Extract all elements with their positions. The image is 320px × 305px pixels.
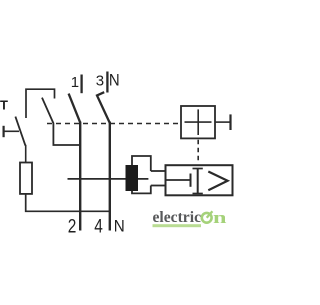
coil output wire	[215, 121, 231, 123]
pole 1 wire	[79, 122, 81, 231]
svg-text:1: 1	[71, 74, 79, 91]
svg-text:4: 4	[94, 216, 103, 237]
symbol greater-than inside amp box	[208, 172, 227, 191]
svg-text:n: n	[213, 208, 227, 227]
dashed link coil to amplifier	[197, 140, 199, 164]
logo o (green switch ring)	[202, 213, 212, 223]
test switch blade	[42, 98, 80, 145]
symbol I (current) inside amp box	[193, 169, 203, 194]
test pushbutton blade	[15, 117, 25, 146]
CT primary sense line	[68, 178, 149, 180]
mechanical linkage dashed line	[47, 123, 181, 125]
terminal stub 1	[80, 75, 82, 94]
coil output terminal bar	[229, 114, 231, 130]
logo green tagline bar	[153, 224, 202, 227]
pole 1 contact blade	[69, 94, 81, 123]
svg-text:electric: electric	[153, 209, 202, 226]
CT core (toroid)	[126, 165, 139, 191]
svg-text:3: 3	[96, 72, 104, 89]
amplifier / trip unit box U2	[166, 165, 233, 195]
svg-text:N: N	[109, 71, 120, 90]
wire resistor to neutral bus	[26, 194, 111, 211]
test pushbutton actuator	[4, 126, 19, 137]
logo electricon	[153, 208, 228, 227]
svg-text:T: T	[0, 98, 8, 113]
wire blade to resistor	[25, 145, 27, 163]
symbol dash-bar inside amp box	[167, 174, 191, 187]
svg-text:2: 2	[68, 216, 77, 237]
pole 2 wire	[109, 122, 111, 231]
CT secondary winding outline	[132, 156, 166, 193]
resistor R (test resistor)	[20, 163, 32, 194]
trip coil box U1	[181, 106, 215, 138]
linkage bracket (test circuit)	[26, 89, 55, 118]
pole 2 contact blade with hooked tip	[97, 92, 110, 123]
terminal stub 3	[106, 72, 108, 93]
svg-text:N: N	[114, 217, 125, 236]
trip coil cross	[185, 109, 212, 135]
